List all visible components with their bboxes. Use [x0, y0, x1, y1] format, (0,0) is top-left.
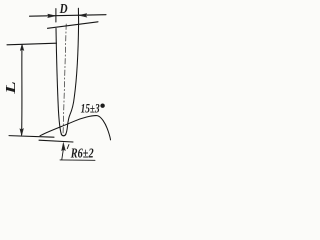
L top arrowhead: [20, 44, 24, 50]
L dimension line: [21, 45, 23, 135]
radius gauge arc: [40, 116, 111, 140]
radius label R6±2: [70, 146, 94, 161]
D left arrowhead: [48, 14, 56, 18]
D dimension line: [30, 15, 107, 17]
dimension label D: [59, 2, 68, 17]
underline shelf of R6 label: [60, 159, 95, 161]
apostrophe tick: [67, 145, 69, 149]
D left extension tick: [55, 9, 57, 22]
L top extension line: [7, 43, 57, 45]
L bottom arrowhead: [20, 129, 24, 136]
D right extension tick: [77, 8, 79, 21]
D right arrowhead: [79, 14, 87, 18]
leader line for R6: [62, 147, 64, 160]
svg-text:15±3: 15±3: [81, 101, 100, 116]
dimension label L (rotated): [3, 81, 18, 95]
R6 leader arrowhead: [62, 143, 66, 151]
part top edge: [48, 22, 99, 29]
part left side: [56, 28, 61, 134]
technical drawing: electrode tip with D, L, 15±3°, R6±2: [0, 0, 117, 164]
lower horizontal line: [39, 140, 73, 142]
tip bottom round: [61, 134, 66, 136]
angle label 15±3°: [81, 101, 105, 116]
part right side: [66, 22, 79, 134]
svg-text:L: L: [3, 81, 18, 95]
svg-text:D: D: [59, 2, 68, 17]
svg-text:R6±2: R6±2: [70, 146, 94, 161]
L bottom extension line: [9, 136, 54, 138]
centerline dash-dot: [63, 24, 66, 136]
